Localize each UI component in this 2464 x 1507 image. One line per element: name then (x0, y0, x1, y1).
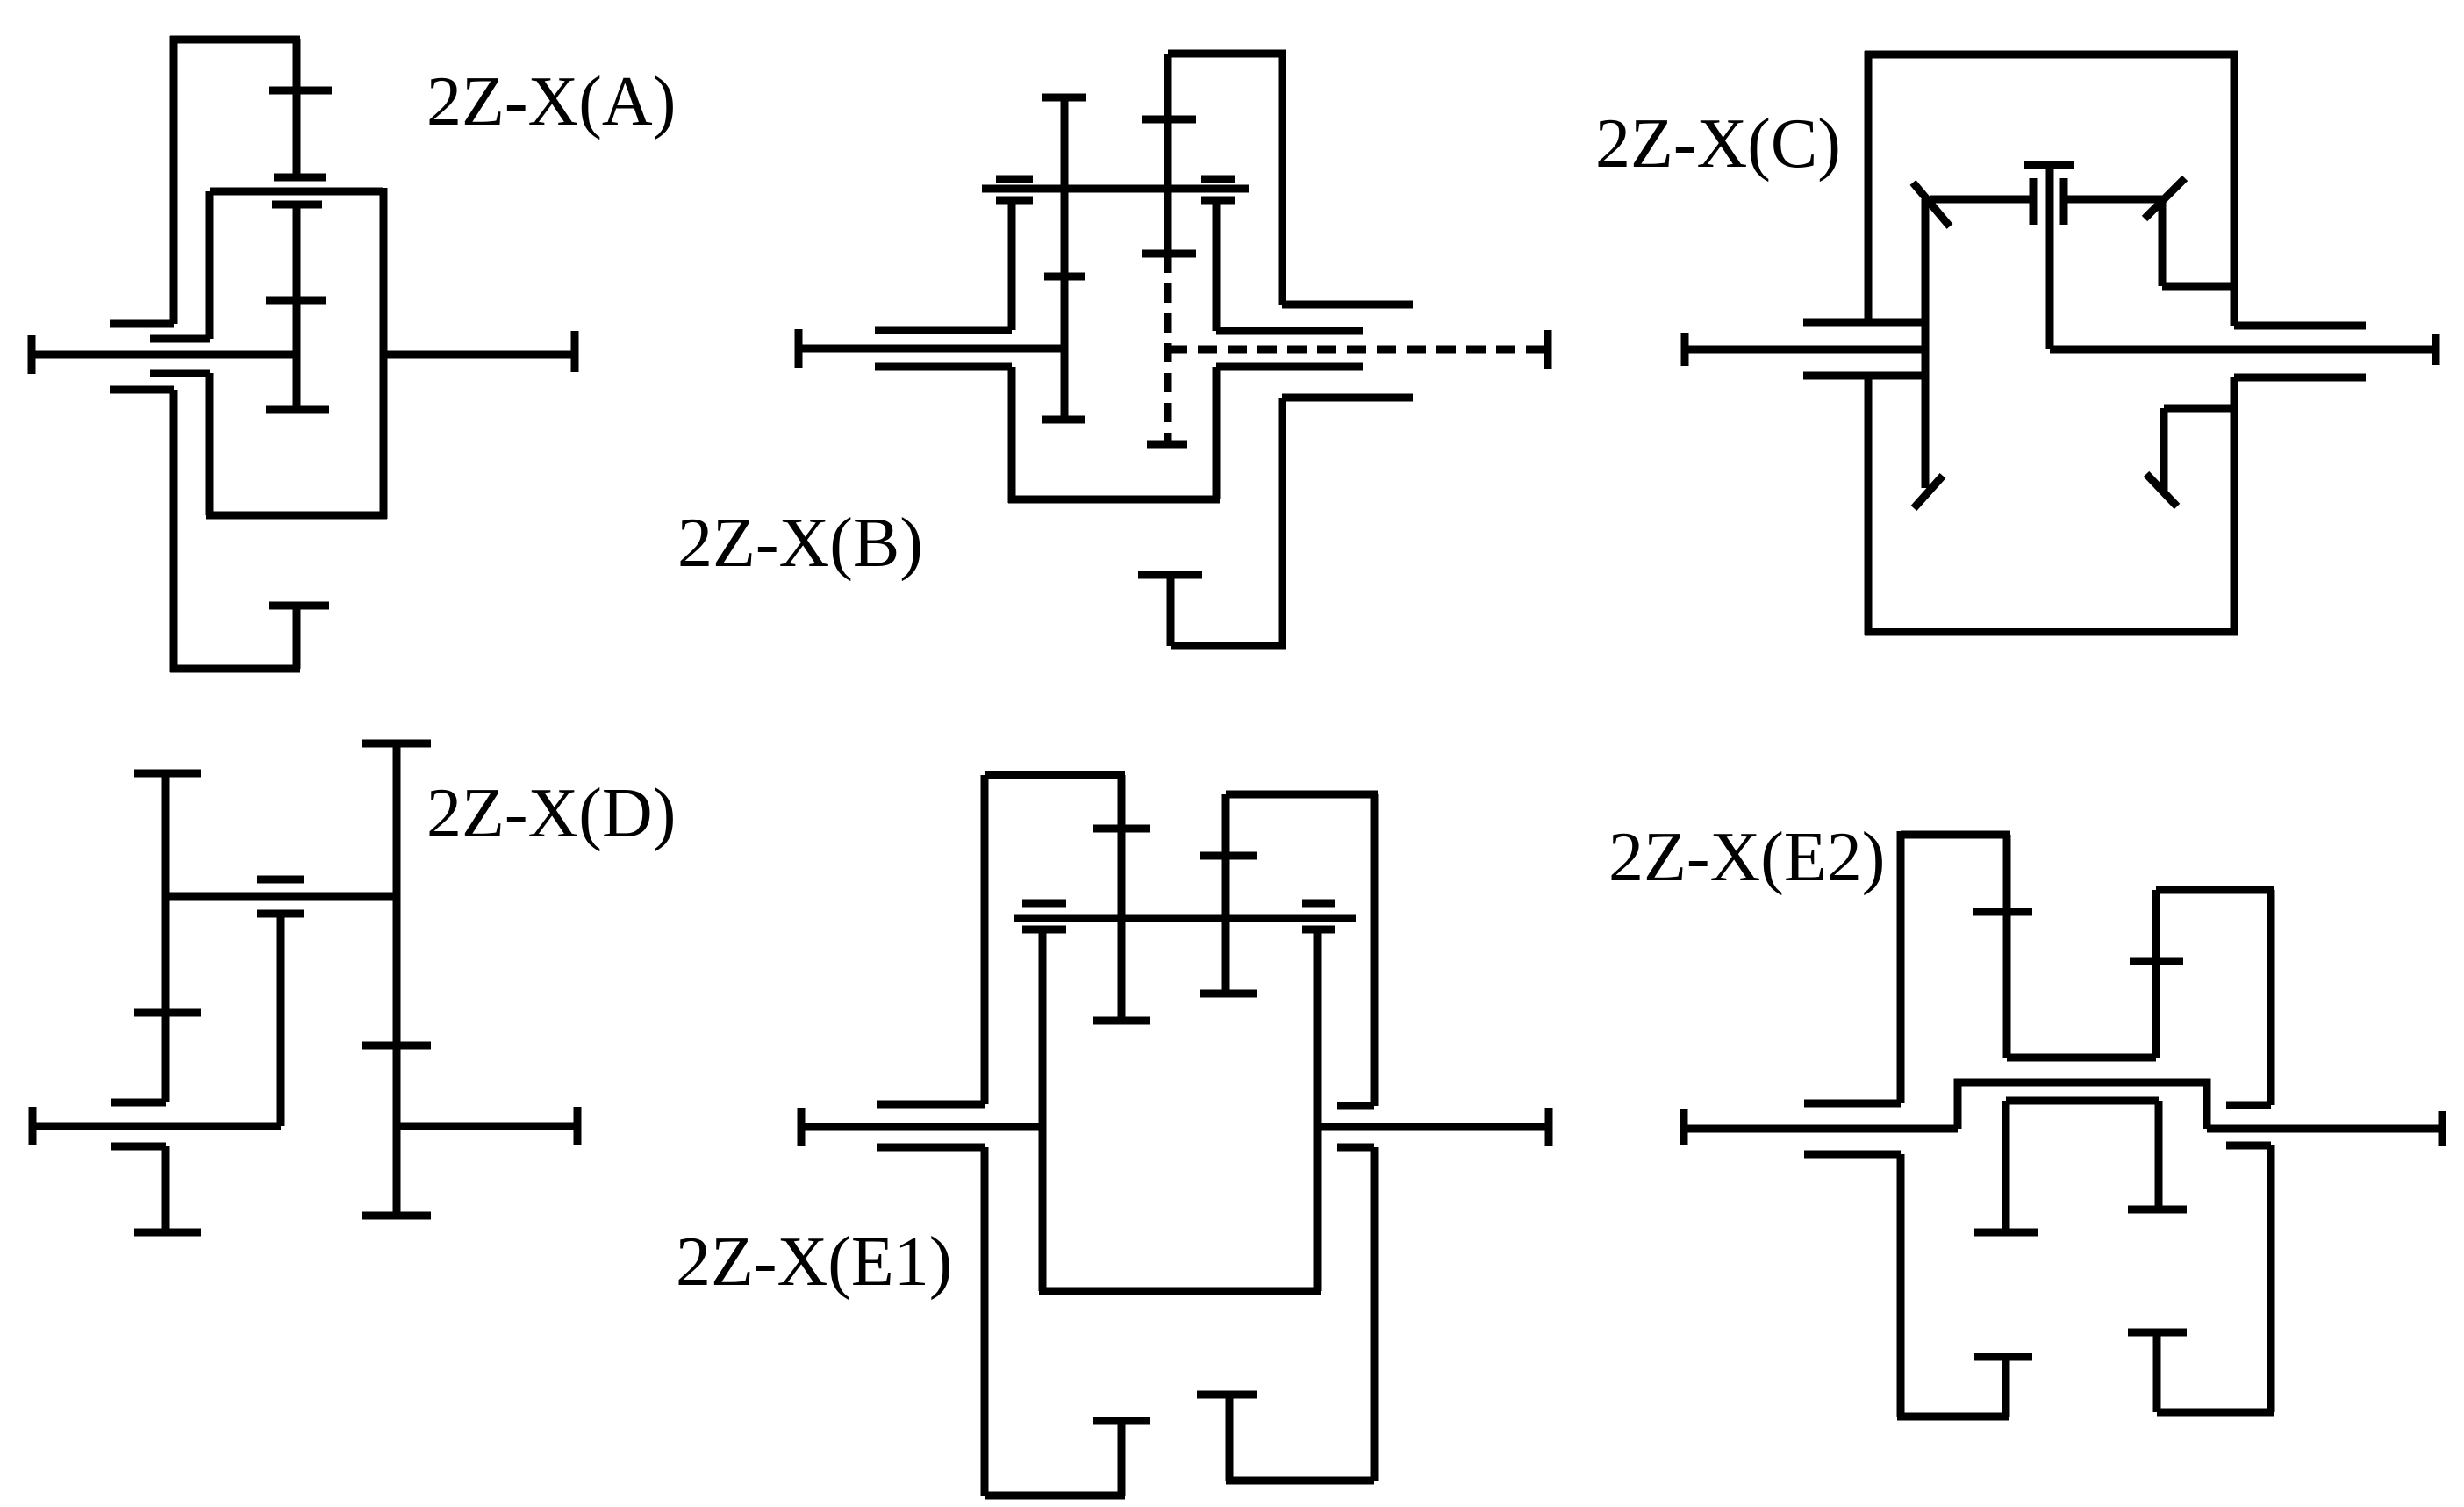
gear a vertical (393, 743, 401, 1216)
carrier right bearing bar lower (1302, 926, 1335, 934)
planet gear g mesh cross bar (1044, 273, 1085, 281)
svg-text:2Z-X(B): 2Z-X(B) (677, 505, 923, 582)
sun sleeve vertical upper (1008, 200, 1016, 330)
ring gear b1 bottom stem (2002, 1357, 2010, 1417)
ring gear b2 bottom cap bar (2128, 1329, 2187, 1337)
wire housing bottom horizontal (170, 665, 300, 673)
right branch vertical upper (2159, 199, 2167, 286)
ring gear b bottom stem (1167, 575, 1175, 646)
ring gear b support stub upper (110, 320, 174, 328)
output shaft (383, 351, 575, 359)
bevel planet bottom-left (1914, 476, 1943, 508)
carrier x plate line (982, 185, 1249, 193)
svg-text:2Z-X(A): 2Z-X(A) (426, 63, 676, 140)
planet gear g2 cap bar (2128, 1206, 2187, 1214)
central bevel gear vertical (2046, 165, 2054, 349)
output arm upper (2234, 322, 2366, 330)
ring gear b2 bottom stem (1226, 1395, 1234, 1481)
sun gear vertical (1164, 54, 1172, 254)
wire housing left vertical upper (170, 36, 178, 324)
ring gear b support stub lower (110, 386, 174, 394)
central bevel gear cap bar (2024, 161, 2074, 169)
ring gear b2 right vertical lower (2267, 1145, 2275, 1412)
support bottom cap bar (134, 1229, 201, 1237)
bevel planet top-left (1913, 183, 1950, 226)
right branch stub lower (2164, 405, 2234, 413)
right branch horizontal upper (2162, 283, 2234, 291)
carrier x right vertical lower (1213, 367, 1221, 499)
output shaft end cap (574, 1107, 582, 1145)
carrier x top plate (210, 188, 383, 196)
carrier x output stub lower (1216, 363, 1363, 371)
phantom gear axis dashed vertical (1164, 254, 1172, 444)
carrier housing top (1865, 51, 2238, 59)
planet gear g1 cap bar (1974, 1229, 2038, 1237)
planet gear g vertical (1061, 97, 1069, 420)
ring gear b2 top (1226, 791, 1378, 799)
planet gear g2 vertical (2155, 1101, 2163, 1209)
gear b1 vertical (2003, 835, 2011, 1058)
carrier x output stub upper (1216, 327, 1363, 335)
ring gear b1 left vertical upper (981, 775, 989, 1104)
ring gear b1 top (985, 771, 1125, 779)
ring gear b right vertical lower (1279, 398, 1286, 649)
input shaft (32, 351, 297, 359)
wire housing left vertical lower (170, 390, 178, 672)
ring gear b right vertical upper (1279, 50, 1286, 305)
carrier housing bottom (1865, 628, 2238, 636)
carrier x left vertical lower (206, 373, 214, 515)
input sleeve stub lower (1804, 1151, 1901, 1159)
ring gear b1 left vertical lower (981, 1147, 989, 1496)
carrier x plate line (1014, 915, 1356, 922)
bridge between gears (2007, 1054, 2156, 1062)
carrier x right bearing bar lower (1201, 197, 1235, 205)
planet gear g top cap bar (1042, 94, 1086, 102)
planet gear g vertical (293, 205, 301, 410)
phantom output shaft dashed (1168, 346, 1548, 354)
svg-text:2Z-X(C): 2Z-X(C) (1595, 105, 1841, 183)
ring gear b2 right vertical lower (1371, 1147, 1379, 1481)
gear a top cap bar (362, 740, 431, 748)
ring gear b2 sleeve stub lower (1337, 1144, 1374, 1152)
carrier x right vertical upper (1213, 200, 1221, 331)
ring gear b bottom horizontal (1171, 642, 1286, 650)
input shaft (801, 1123, 1042, 1131)
gear b1 mesh cross bar (1093, 825, 1150, 833)
carrier left bearing bar lower (1022, 926, 1066, 934)
input shaft (1685, 346, 1925, 354)
sun-planet mesh bar (266, 297, 326, 305)
wire housing top horizontal (170, 36, 300, 44)
gear b1 bottom cap bar (1093, 1017, 1150, 1025)
ring gear rect top (1168, 50, 1286, 58)
carrier x bottom plate (1008, 496, 1220, 504)
input shaft (1684, 1125, 1958, 1133)
gear b top cap bar (134, 770, 201, 778)
ring gear b bottom cap bar (269, 602, 329, 610)
gear b2 vertical (2152, 890, 2160, 1058)
output shaft (397, 1123, 577, 1130)
ring gear b mesh cross bar (269, 87, 332, 95)
carrier bearing bar upper (257, 876, 304, 884)
input sleeve stub lower (877, 1144, 985, 1152)
sun gear a bottom cap bar (266, 406, 329, 414)
planet rect top (2006, 1097, 2159, 1105)
output shaft (1317, 1123, 1549, 1131)
input shaft end cap (798, 1108, 806, 1146)
ring gear b1 bottom cap bar (1093, 1417, 1150, 1425)
carrier x left vertical upper (206, 191, 214, 339)
carrier x bottom plate (206, 512, 387, 520)
svg-text:2Z-X(E1): 2Z-X(E1) (676, 1224, 952, 1301)
gear b sleeve stub upper (111, 1099, 166, 1107)
gear b mesh cross bar (134, 1009, 201, 1017)
output arm lower (2234, 374, 2366, 382)
svg-text:2Z-X(E2): 2Z-X(E2) (1608, 819, 1885, 896)
ring gear b2 right vertical upper (1371, 794, 1379, 1106)
ring gear b2 sleeve stub lower (2226, 1142, 2271, 1150)
carrier x sleeve stub lower (150, 370, 210, 377)
gear b vertical (162, 773, 170, 1102)
carrier x left vertical (1039, 929, 1047, 1291)
input shaft (799, 345, 1064, 353)
ring gear b1 bottom cap bar (1974, 1353, 2032, 1361)
ring gear b output arm lower (1282, 394, 1413, 402)
ring gear b1 left vertical upper (1897, 831, 1905, 1103)
carrier x plate line (166, 893, 397, 901)
gear b sleeve stub lower (111, 1143, 166, 1151)
ring gear b1 left vertical lower (1897, 1154, 1905, 1417)
carrier arm vertical (1922, 199, 1930, 488)
carrier x line with steps (1958, 1082, 2207, 1129)
output shaft (2207, 1125, 2442, 1133)
bevel gear top-right (2145, 178, 2185, 219)
ring gear b2 bottom cap bar (1197, 1391, 1257, 1399)
ring gear b vertical (293, 39, 301, 177)
support vertical (162, 1146, 170, 1232)
output shaft end cap (2439, 1111, 2446, 1146)
bevel cross arm right (2064, 196, 2162, 204)
carrier x sleeve stub upper (150, 335, 210, 343)
gear a mesh cross bar (362, 1042, 431, 1050)
input shaft (32, 1123, 281, 1130)
planet gear g vertical (277, 914, 285, 1126)
sun sleeve stub lower (875, 363, 1012, 371)
ring gear b1 bottom (1897, 1413, 2009, 1421)
carrier housing left vertical lower (1865, 376, 1873, 635)
bevel cross arm left (1930, 196, 2033, 204)
phantom output shaft end cap (1544, 330, 1552, 369)
input sleeve stub upper (877, 1101, 985, 1109)
bevel mesh bar left (2030, 178, 2038, 225)
svg-text:2Z-X(D): 2Z-X(D) (426, 775, 676, 852)
input shaft end cap (28, 335, 36, 374)
input shaft end cap (795, 329, 803, 368)
ring gear b1 bottom (985, 1492, 1125, 1500)
carrier right bearing bar upper (1302, 900, 1335, 908)
ring gear b2 bottom (2157, 1409, 2274, 1417)
bevel mesh bar right (2060, 178, 2068, 225)
ring gear b2 right vertical upper (2267, 890, 2275, 1105)
ring gear b2 sleeve stub upper (2226, 1102, 2271, 1109)
carrier x bottom plate (1039, 1288, 1321, 1295)
ring gear b bottom cap bar (1138, 571, 1202, 579)
input shaft end cap (1681, 333, 1689, 366)
output shaft end cap (1545, 1108, 1553, 1146)
gear b2 vertical (1222, 794, 1230, 994)
carrier housing left vertical upper (1865, 51, 1873, 323)
right branch vertical lower (2160, 408, 2168, 492)
ring gear b bottom stem (293, 606, 301, 669)
sun gear bottom cap bar (1142, 250, 1196, 258)
gear b2 bottom cap bar (1200, 990, 1257, 998)
ring gear b1 bottom stem (1118, 1421, 1126, 1496)
input sleeve stub upper (1804, 1100, 1901, 1108)
output shaft (2050, 346, 2436, 354)
carrier housing right vertical lower (2231, 377, 2238, 635)
gear b1 mesh cross bar (1973, 908, 2032, 916)
carrier housing right vertical upper (2231, 51, 2238, 326)
bevel gear bottom-right (2146, 474, 2177, 506)
ring gear b1 top (1901, 831, 2010, 839)
sun sleeve vertical lower (1008, 367, 1016, 503)
planet gear g top cap bar (272, 201, 322, 209)
carrier left bearing bar upper (1022, 900, 1066, 908)
gear b2 mesh cross bar (2130, 958, 2183, 965)
carrier x right bearing bar upper (1201, 176, 1235, 183)
gear a bottom cap bar (362, 1212, 431, 1220)
planet gear g bottom cap bar (1042, 416, 1085, 424)
input stub lower (1803, 372, 1925, 380)
carrier x left bearing bar upper (996, 176, 1033, 183)
carrier x left bearing bar lower (996, 197, 1033, 205)
ring gear b2 bottom stem (2153, 1332, 2161, 1412)
carrier x right vertical (1314, 929, 1322, 1291)
planet gear g1 vertical (2002, 1101, 2010, 1232)
output shaft end cap (2432, 334, 2440, 365)
ring gear b lower cap bar (274, 174, 326, 182)
input shaft end cap (1680, 1109, 1688, 1145)
input stub upper (1803, 319, 1925, 327)
ring gear b output arm upper (1282, 301, 1413, 309)
ring gear b2 top (2156, 886, 2274, 894)
sun sleeve stub upper (875, 327, 1012, 334)
planet gear g top cap bar (257, 910, 304, 918)
ring gear b2 bottom (1226, 1477, 1374, 1485)
input shaft end cap (29, 1107, 37, 1145)
gear b2 mesh cross bar (1200, 852, 1257, 860)
ring gear b2 sleeve stub upper (1337, 1102, 1374, 1110)
sun gear mesh cross bar (1142, 116, 1196, 124)
output shaft end cap (571, 331, 579, 372)
carrier x right vertical (380, 188, 388, 519)
gear b1 vertical (1118, 775, 1126, 1021)
phantom gear bottom cap bar (1147, 441, 1187, 449)
